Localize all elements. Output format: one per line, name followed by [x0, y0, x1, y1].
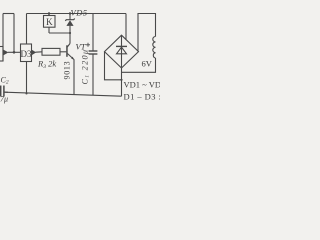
wire K to zener line [49, 32, 70, 34]
bridge inner diode lead [121, 35, 123, 67]
box D3 [21, 44, 32, 62]
capacitor C1 plates [89, 50, 98, 52]
box left device (cut off at edge) [0, 47, 3, 62]
wire emitter vertical [73, 59, 75, 95]
capacitor C2 plates [0, 86, 2, 97]
box relay K [44, 16, 56, 28]
node K wire / zener line [69, 32, 71, 34]
wire bottom rail [5, 92, 122, 96]
wire zener top [69, 14, 71, 20]
wire zener to collector [69, 26, 71, 44]
svg-text:D3: D3 [21, 49, 32, 59]
svg-text:9013: 9013 [63, 61, 72, 80]
wire bridge left vertex down and over [105, 52, 122, 80]
capacitor C2 lead [4, 91, 8, 93]
wire box output to D3 [8, 51, 21, 53]
node D3 stub / bottom rail [25, 92, 27, 94]
wire right bracket to transformer [138, 14, 156, 52]
wire top rail [27, 13, 127, 15]
capacitor C1 top wire [92, 14, 94, 51]
zener VD5 bar [65, 19, 74, 21]
transistor VT emitter diagonal [67, 54, 73, 60]
svg-text:VD5: VD5 [71, 8, 88, 18]
svg-text:6V: 6V [142, 59, 153, 69]
arrow after D3 [32, 50, 36, 55]
arrow after left box [4, 50, 9, 56]
wire D3 top stub [26, 14, 28, 45]
wire top-left segment [3, 13, 14, 15]
node top rail / VD5 [69, 12, 71, 14]
transistor VT collector diagonal [67, 44, 70, 48]
bridge inner diode triangle [117, 47, 127, 54]
node left box output [13, 51, 16, 54]
transistor emitter arrowhead [71, 57, 74, 60]
node bridge bottom junction [120, 79, 122, 81]
capacitor C1 bottom wire [92, 54, 94, 96]
wire coil bottom [122, 58, 156, 72]
resistor R3 box [42, 48, 60, 55]
svg-text:R3 2k: R3 2k [37, 59, 56, 71]
wire K bottom [48, 27, 50, 33]
wire base [60, 51, 66, 53]
transformer secondary coil 6V [153, 37, 156, 59]
svg-text:D1 – D3 :: D1 – D3 : [124, 92, 161, 102]
wire bridge bottom vertex down [121, 68, 123, 96]
svg-text:K: K [46, 17, 53, 27]
C1 plus sign [86, 43, 90, 47]
bridge rectifier diamond [105, 35, 139, 68]
wire D3 bottom stub [26, 62, 28, 94]
wire D3 to R3 [36, 51, 43, 53]
wire left vertical to box [2, 14, 4, 62]
transistor base bar [66, 45, 68, 57]
wire vertical into dot [13, 14, 15, 53]
node top rail / K [48, 12, 50, 14]
wire K top stub [48, 14, 50, 16]
bridge inner diode bar [116, 45, 127, 47]
zener VD5 triangle [66, 20, 73, 26]
svg-text:VD1 ~ VD4: VD1 ~ VD4 [124, 80, 161, 90]
wire top rail corner down to bridge [125, 14, 127, 40]
svg-text:C1 220μ: C1 220μ [81, 49, 91, 85]
svg-text:47μ: 47μ [0, 95, 8, 104]
